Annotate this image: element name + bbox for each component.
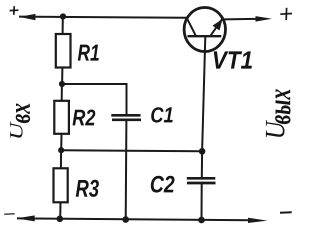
plus terminal top-left [10,6,19,15]
node top-rail/R1 junction [60,13,66,19]
arrow bottom-right [248,218,268,223]
node R2/R3 junction [58,147,64,153]
label U input [10,104,30,138]
label R1 [78,45,99,61]
label R2 [73,110,96,126]
wire top rail left [19,17,187,18]
node base junction [199,148,206,155]
arrow bottom-left [17,215,35,221]
arrow top-left [19,14,36,20]
wire C2 to bottom rail [201,183,203,220]
wire base junction to C2 [201,151,203,178]
capacitor C1 [111,115,141,120]
label R3 [76,180,99,197]
resistor R1 [56,17,71,85]
node R3 bottom [57,216,64,223]
label VT1 [214,51,252,68]
transistor VT1 [184,8,225,52]
wire node to C1 [62,84,127,115]
minus terminal bottom-left [4,213,15,216]
wire C1 to bottom rail [125,120,128,220]
resistor R2 [54,84,69,150]
node C2 bottom [198,217,205,224]
resistor R3 [54,150,68,218]
capacitor C2 [187,178,216,183]
wire top rail right [224,18,257,21]
wire base lead [202,37,205,152]
arrow top-right [256,16,273,22]
node R1/R2 junction [59,81,65,87]
label U output [266,89,291,137]
minus terminal bottom-right [280,211,292,214]
label C2 [151,176,175,193]
wire base (mid horizontal) [61,150,202,151]
label C1 [151,107,173,122]
node C1 bottom [122,216,129,223]
wire bottom rail [17,218,252,220]
plus terminal top-right [280,8,292,20]
